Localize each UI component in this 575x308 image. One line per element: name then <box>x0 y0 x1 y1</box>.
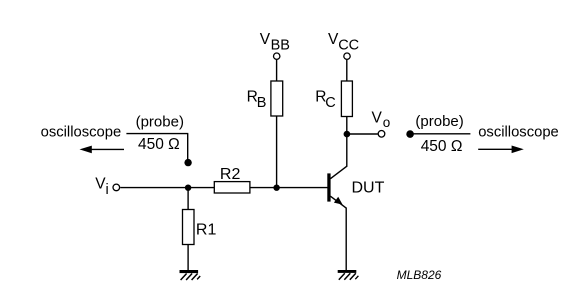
svg-text:R1: R1 <box>196 222 217 239</box>
svg-text:(probe): (probe) <box>415 113 463 130</box>
wire: VCC stem through RC down to collector <box>346 60 348 167</box>
ground (below R1) <box>180 270 201 280</box>
resistor R2 <box>214 182 250 193</box>
wire: right probe horizontal <box>413 133 470 135</box>
node: junction at R1 tap <box>185 185 191 191</box>
svg-text:450 Ω: 450 Ω <box>421 138 463 155</box>
svg-text:oscilloscope: oscilloscope <box>41 125 122 141</box>
resistor R1 <box>183 210 195 245</box>
right probe tip dot <box>406 130 414 138</box>
terminal Vo circle <box>378 131 385 138</box>
wire: main input line to base <box>120 187 328 189</box>
wire: left probe horizontal <box>126 133 188 135</box>
input terminal Vi circle <box>113 184 120 191</box>
wire: to Vo terminal <box>347 133 378 135</box>
svg-text:R2: R2 <box>220 166 241 183</box>
ground (emitter) <box>338 270 359 280</box>
wire: left probe vertical drop <box>187 134 189 160</box>
wire: VBB stem through RB to base node <box>276 60 278 188</box>
wire: emitter down to ground <box>345 208 347 271</box>
terminal VBB circle <box>274 53 280 59</box>
svg-text:BB: BB <box>271 37 290 53</box>
svg-text:V: V <box>372 110 383 127</box>
resistor RC <box>341 81 352 117</box>
svg-text:450 Ω: 450 Ω <box>138 136 180 153</box>
transistor emitter lead <box>330 196 346 208</box>
left arrow to oscilloscope <box>90 148 124 150</box>
svg-text:o: o <box>383 115 391 130</box>
transistor Q1 (DUT) base bar <box>327 173 330 201</box>
svg-text:(probe): (probe) <box>136 114 184 131</box>
right arrow to oscilloscope <box>478 148 513 150</box>
svg-text:DUT: DUT <box>352 179 385 196</box>
transistor collector lead <box>330 166 347 179</box>
svg-text:B: B <box>257 95 267 111</box>
terminal VCC circle <box>344 53 350 59</box>
svg-text:CC: CC <box>338 37 359 53</box>
transistor emitter arrowhead <box>334 197 343 205</box>
resistor RB <box>271 81 283 116</box>
svg-text:i: i <box>106 182 109 198</box>
node: collector junction <box>344 131 351 138</box>
svg-text:oscilloscope: oscilloscope <box>478 125 559 141</box>
svg-text:C: C <box>325 95 335 111</box>
left probe tip dot <box>184 159 191 166</box>
wire: R1 stem down <box>187 188 189 271</box>
svg-text:MLB826: MLB826 <box>397 268 442 282</box>
svg-text:V: V <box>260 31 271 48</box>
node: base junction <box>273 185 279 191</box>
